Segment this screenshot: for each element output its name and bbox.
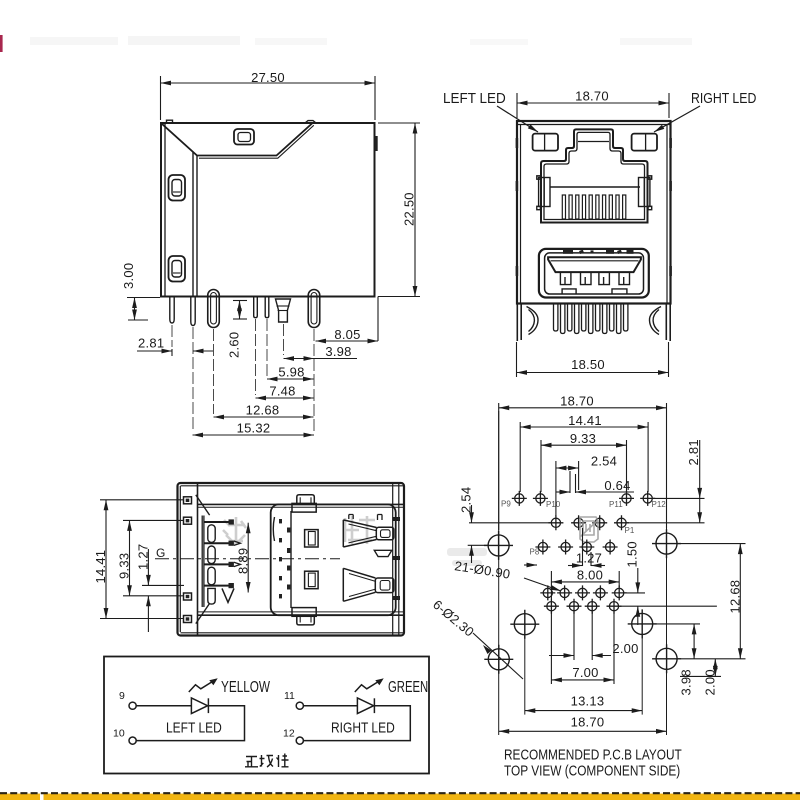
pad P11	[619, 491, 634, 506]
latch on top face	[234, 129, 254, 145]
bottom dashed border	[0, 792, 800, 794]
dim 2.81	[137, 349, 213, 356]
pad P1	[614, 515, 629, 530]
dim 8.89	[247, 523, 249, 593]
svg-text:1.27: 1.27	[576, 551, 602, 566]
pad P8	[535, 540, 550, 555]
svg-text:22.50: 22.50	[402, 192, 417, 226]
leader 6-dia	[473, 633, 523, 679]
yellow arrow symbol	[189, 678, 218, 692]
contact loop 3	[208, 567, 215, 585]
mounting holes	[484, 529, 681, 674]
usb center seam tab	[374, 550, 392, 556]
svg-text:15.32: 15.32	[237, 421, 271, 436]
usb spring finger upper	[343, 520, 394, 547]
dim 3.98	[284, 358, 358, 360]
dim 12.68 side view	[214, 416, 314, 418]
pins of side view	[170, 290, 378, 342]
svg-text:RIGHT LED: RIGHT LED	[691, 90, 756, 106]
faint watermark smudges pcb	[447, 548, 487, 566]
dim 2.00 right	[680, 659, 721, 677]
rj45 latch slot line	[578, 141, 609, 143]
svg-text:1.50: 1.50	[625, 541, 640, 567]
dim 2.00 mid	[549, 612, 611, 660]
pin at 2.81 left	[170, 297, 174, 324]
thin pin a	[254, 297, 258, 318]
svg-text:P8: P8	[530, 548, 540, 557]
contact row 3	[204, 562, 240, 567]
pcb pads row5	[544, 599, 622, 614]
press-fit loop pin left	[208, 290, 220, 328]
svg-text:14.41: 14.41	[93, 550, 108, 584]
dim 9.33 top view	[123, 520, 184, 595]
svg-text:18.70: 18.70	[571, 714, 605, 729]
svg-text:2.00: 2.00	[612, 641, 638, 656]
svg-text:12.68: 12.68	[246, 403, 280, 418]
svg-text:TOP VIEW (COMPONENT SIDE): TOP VIEW (COMPONENT SIDE)	[504, 762, 680, 779]
faint top smudge band	[30, 36, 692, 45]
svg-text:12.68: 12.68	[728, 580, 743, 614]
emi skirt sides	[517, 304, 670, 342]
thin pin b	[265, 297, 269, 318]
dim 2.54 left	[468, 505, 552, 563]
svg-text:5.98: 5.98	[278, 365, 304, 380]
dim 14.41 top view	[100, 500, 184, 619]
right edge ticks top view	[394, 518, 400, 600]
svg-text:LEFT LED: LEFT LED	[166, 719, 222, 736]
red edge mark	[0, 35, 3, 52]
mounting peg upper	[169, 175, 186, 201]
usb shell top view	[271, 495, 396, 625]
contact row 1	[204, 519, 234, 524]
top view body outline	[178, 483, 405, 636]
emi comb	[554, 304, 628, 334]
hole column centerlines	[499, 411, 667, 735]
front face outer	[517, 121, 671, 304]
press-fit loop pin right	[308, 290, 320, 328]
usb contact 4	[619, 272, 630, 285]
flange inner edge	[164, 123, 166, 297]
leader 21-dia	[524, 565, 561, 591]
svg-text:18.70: 18.70	[575, 89, 609, 104]
usb finger ears upper	[349, 515, 382, 521]
svg-text:27.50: 27.50	[251, 70, 285, 85]
usb tongue	[548, 257, 641, 272]
svg-text:9.33: 9.33	[117, 553, 132, 579]
svg-text:14.41: 14.41	[568, 413, 602, 428]
usb receptacle outer	[539, 249, 649, 298]
usb bottom mount tab	[292, 608, 316, 625]
shell seam nubs right	[669, 138, 672, 276]
mounting peg lower	[169, 256, 186, 282]
svg-text:11: 11	[284, 690, 295, 702]
terminal 11	[296, 702, 303, 709]
top face trapezoid	[162, 124, 313, 156]
terminal 12	[296, 737, 303, 744]
rj45 contacts top view	[202, 516, 240, 608]
rj45 divider line	[550, 186, 640, 188]
rj45 side rail left	[537, 176, 550, 210]
left circuit wires	[136, 706, 244, 741]
right edge tab	[375, 136, 378, 151]
usb contact 1	[560, 272, 571, 285]
svg-text:P11: P11	[609, 500, 623, 509]
dim 2.54 pcb	[556, 461, 579, 516]
dim 3.00	[127, 298, 160, 321]
contact row 2	[204, 541, 240, 546]
svg-text:9: 9	[119, 690, 125, 702]
svg-text:9.33: 9.33	[570, 431, 596, 446]
pin centerlines	[172, 319, 314, 432]
diode left	[191, 698, 208, 714]
dim 8.00	[551, 571, 619, 599]
svg-text:2.81: 2.81	[686, 439, 701, 465]
svg-text:12: 12	[283, 728, 295, 740]
svg-text:P10: P10	[546, 500, 561, 509]
rj45 contacts	[562, 195, 626, 219]
hole top-right	[652, 529, 681, 558]
front face inner top line	[517, 125, 671, 304]
terminal 9	[129, 702, 136, 709]
trapezoid double lines	[199, 125, 314, 158]
shell seam nubs left	[516, 138, 519, 276]
left tab 1	[184, 497, 192, 504]
usb contact 2	[581, 272, 592, 285]
usb bottom tabs	[562, 289, 627, 294]
watermark char 2	[345, 516, 375, 544]
usb weld marks	[563, 250, 634, 254]
left tab 2	[184, 517, 192, 524]
dim 27.50	[161, 76, 376, 120]
left LED window	[533, 134, 558, 151]
hole top-left	[484, 531, 513, 560]
svg-text:P1: P1	[625, 526, 635, 535]
usb receptacle inner	[545, 253, 644, 294]
dim 18.70 pcb bottom	[499, 730, 667, 732]
svg-text:0.64: 0.64	[604, 478, 630, 493]
dim 12.68 pcb	[677, 544, 746, 659]
dim 0.64	[556, 471, 634, 493]
svg-text:8.05: 8.05	[334, 327, 360, 342]
pad P10	[533, 491, 548, 506]
contact loop 4 long	[208, 588, 234, 604]
svg-text:RIGHT LED: RIGHT LED	[331, 719, 395, 736]
dim 18.50	[517, 342, 669, 377]
dim 3.98 pcb	[653, 624, 700, 659]
svg-text:P9: P9	[501, 500, 511, 509]
bottom yellow strip	[0, 794, 800, 800]
leader right led	[654, 106, 700, 132]
right side pin line	[377, 297, 379, 342]
flange boundary line	[197, 483, 199, 636]
right LED window	[632, 134, 657, 151]
usb top mount tab	[292, 495, 316, 512]
contact spine	[202, 516, 204, 608]
terminal 10	[129, 737, 136, 744]
pin at 2.81 right	[191, 297, 195, 326]
svg-text:1.27: 1.27	[136, 544, 151, 570]
dim 5.98	[267, 378, 314, 380]
contact loop 1	[208, 525, 215, 543]
contact loop 2	[208, 546, 215, 564]
dim 15.32	[193, 434, 315, 436]
rj45 side rail right	[639, 176, 652, 210]
dim 2.60	[233, 301, 247, 320]
dim 7.48	[256, 397, 314, 399]
tapered solder pin	[276, 299, 291, 322]
usb shell left seam	[273, 511, 291, 608]
dim 9.33 pcb	[541, 440, 627, 492]
usb shell outline	[271, 504, 396, 615]
body front wall double line	[193, 152, 197, 297]
emi wing left	[527, 307, 539, 335]
svg-text:3.98: 3.98	[679, 669, 694, 695]
rj45 cavity outer outline	[541, 129, 648, 222]
usb inner contact rect upper	[305, 530, 319, 547]
svg-text:18.50: 18.50	[571, 357, 605, 372]
svg-text:18.70: 18.70	[560, 393, 594, 408]
svg-text:P12: P12	[652, 500, 667, 509]
usb inner contact rect lower	[305, 571, 319, 589]
dim 14.41 pcb	[520, 422, 648, 492]
svg-text:3.98: 3.98	[325, 344, 351, 359]
pad P9	[512, 491, 527, 506]
dim 2.81 pcb	[627, 440, 705, 523]
left tab 3	[184, 593, 192, 600]
svg-text:GREEN: GREEN	[388, 678, 428, 695]
svg-text:YELLOW: YELLOW	[221, 678, 270, 695]
emi wing right	[649, 307, 661, 335]
diode right	[357, 698, 374, 714]
hole mid-right	[628, 609, 657, 638]
pcb pads row2	[548, 515, 629, 530]
dim 1.27 pcb	[568, 528, 605, 566]
svg-text:RECOMMENDED P.C.B LAYOUT: RECOMMENDED P.C.B LAYOUT	[504, 746, 682, 763]
svg-text:G: G	[156, 546, 165, 560]
svg-text:2.54: 2.54	[591, 454, 617, 469]
svg-text:2.60: 2.60	[227, 332, 242, 358]
contact row 4	[204, 583, 234, 588]
dim 8.05	[316, 340, 379, 342]
pad P12	[640, 491, 655, 506]
dim 13.13	[525, 710, 642, 712]
top view inner edges	[180, 483, 403, 636]
svg-text:8.89: 8.89	[236, 548, 251, 574]
pcb pads row4	[540, 585, 626, 600]
shell box horizontal edges	[198, 504, 404, 615]
leader left led	[497, 106, 538, 132]
chinese polarity text	[245, 754, 289, 768]
dim 18.70 front	[517, 93, 669, 118]
usb shell dashes column	[279, 519, 290, 598]
hole bottom-left	[484, 645, 513, 674]
right circuit wires	[303, 706, 410, 741]
dim 1.27 top view	[142, 549, 184, 632]
svg-text:2.00: 2.00	[703, 669, 718, 695]
flange corner chamfers	[196, 495, 210, 624]
usb spring finger lower	[343, 568, 394, 601]
pcb pads row1	[512, 491, 655, 506]
svg-text:7.48: 7.48	[269, 384, 295, 399]
svg-text:13.13: 13.13	[571, 694, 605, 709]
side view body outline	[161, 123, 375, 297]
left tab 4	[184, 616, 192, 623]
svg-text:7.00: 7.00	[572, 665, 598, 680]
hole bottom-right	[652, 644, 681, 673]
usb contact 3	[599, 272, 610, 285]
pcb pads row3	[535, 540, 617, 555]
watermark char 1	[223, 517, 246, 544]
centerline top view	[155, 558, 340, 560]
dim 22.50	[378, 123, 420, 297]
dim 7.00	[551, 612, 614, 684]
dim 1.50	[619, 568, 717, 625]
svg-text:8.00: 8.00	[577, 567, 603, 582]
svg-text:3.00: 3.00	[121, 263, 136, 289]
top edge notch	[167, 120, 317, 123]
schematic box	[104, 657, 429, 774]
svg-text:LEFT LED: LEFT LED	[443, 90, 506, 107]
green arrow symbol	[355, 678, 384, 692]
svg-text:2.54: 2.54	[459, 487, 474, 513]
rj45 cavity inner outline	[544, 132, 645, 219]
svg-text:10: 10	[113, 728, 125, 740]
watermark logo glyph	[580, 517, 598, 542]
svg-text:2.81: 2.81	[138, 336, 164, 351]
dim 18.70 pcb top	[499, 403, 667, 530]
hole mid-left	[510, 610, 539, 639]
